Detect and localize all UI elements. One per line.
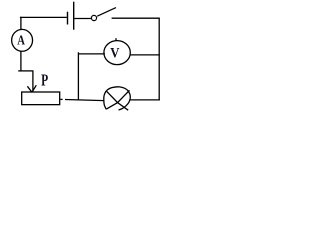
svg-text:V: V <box>110 46 119 62</box>
wire ammeter bottom stub <box>20 51 22 71</box>
wire top-right rail <box>112 17 160 19</box>
wire elbow to slider <box>18 70 33 72</box>
wire voltmeter right <box>130 54 160 56</box>
lamp cross diagonal 1 <box>107 91 129 110</box>
wire voltmeter left <box>78 53 105 55</box>
wire voltmeter branch vertical <box>77 52 79 99</box>
svg-text:P: P <box>41 72 48 91</box>
switch S1 pivot circle <box>91 15 96 20</box>
lamp L1 circle <box>104 87 130 110</box>
rheostat slider arrowhead left barb <box>27 86 32 92</box>
voltmeter top tick <box>115 38 117 41</box>
wire battery to switch <box>74 18 91 20</box>
battery B1 short plate <box>67 12 69 25</box>
wire resistor output dash <box>60 98 62 100</box>
resistor P body <box>22 92 60 105</box>
voltmeter V1 circle <box>104 41 130 65</box>
wire ammeter top stub <box>20 17 22 30</box>
wire top-left rail <box>20 16 67 18</box>
rheostat slider arrow stem <box>32 71 34 92</box>
battery B1 long plate <box>73 2 75 30</box>
rheostat slider arrowhead right barb <box>32 85 36 92</box>
wire lamp right <box>130 99 160 101</box>
wire right rail <box>158 18 160 100</box>
svg-text:A: A <box>17 32 25 48</box>
switch S1 blade <box>97 8 116 17</box>
lamp cross diagonal 2 <box>106 90 129 109</box>
ammeter A1 circle <box>12 29 33 51</box>
wire bottom to lamp <box>65 100 104 101</box>
